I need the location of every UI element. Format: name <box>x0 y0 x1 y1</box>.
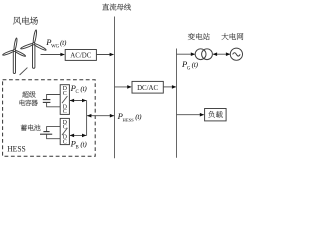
substation label <box>188 33 210 40</box>
svg-text:HESS: HESS <box>123 117 135 122</box>
grid source G1 <box>230 48 242 60</box>
svg-text:(t): (t) <box>60 38 67 47</box>
converter U3 DC/DC (supercap) <box>60 85 69 115</box>
label P_HESS(t) <box>117 111 142 122</box>
transformer T1 (substation) <box>195 49 212 60</box>
label P_G(t) <box>181 59 198 71</box>
svg-text:(t): (t) <box>80 139 87 148</box>
HESS inner bus <box>86 100 88 135</box>
wire P_C double arrow <box>70 99 87 103</box>
wire AC/DC to DC bus <box>96 53 114 57</box>
svg-text:B: B <box>76 146 79 151</box>
battery B1 <box>40 127 60 139</box>
converter U4 DC/DC (battery) <box>60 118 69 145</box>
svg-text:HESS: HESS <box>7 145 26 154</box>
label P_WG(t) <box>45 37 67 49</box>
load box <box>205 109 227 121</box>
svg-text:(t): (t) <box>192 60 199 69</box>
wind turbine WT1 (left) <box>2 38 26 74</box>
label P_B(t) <box>70 138 88 150</box>
ellipsis slash (more turbines) <box>20 68 28 75</box>
wind farm label <box>13 17 38 25</box>
converter U2 DC/AC <box>132 81 163 93</box>
supercapacitor C1 <box>43 95 61 107</box>
svg-text:C: C <box>63 91 67 97</box>
svg-text:C: C <box>63 139 67 145</box>
svg-text:AC/DC: AC/DC <box>70 53 91 60</box>
wire wind farm to AC/DC <box>41 53 65 57</box>
supercapacitor label <box>20 91 38 106</box>
DC bus <box>114 17 116 159</box>
grid label <box>222 33 244 40</box>
svg-text:DC/AC: DC/AC <box>137 85 158 92</box>
label P_C(t) <box>70 83 88 95</box>
svg-text:(t): (t) <box>80 84 87 93</box>
svg-text:G: G <box>187 66 191 71</box>
wind turbine WT2 (right) <box>20 30 46 69</box>
svg-text:C: C <box>76 90 79 95</box>
svg-text:(t): (t) <box>135 112 142 121</box>
wire P_B double arrow <box>70 134 87 138</box>
svg-text:C: C <box>63 109 67 115</box>
wire DC/AC to AC bus <box>163 85 176 89</box>
AC bus <box>176 49 178 158</box>
wire P_HESS double arrow <box>87 114 114 118</box>
battery label <box>21 124 41 130</box>
HESS dashed box <box>3 80 96 157</box>
svg-text:WG: WG <box>51 44 60 49</box>
DC bus label <box>102 4 131 11</box>
wire DC bus to DC/AC <box>115 85 132 89</box>
wire AC bus to transformer <box>177 52 196 56</box>
wire transformer to grid (double arrow) <box>213 52 231 56</box>
wire AC bus to load <box>177 113 205 117</box>
converter U1 AC/DC <box>65 50 96 61</box>
